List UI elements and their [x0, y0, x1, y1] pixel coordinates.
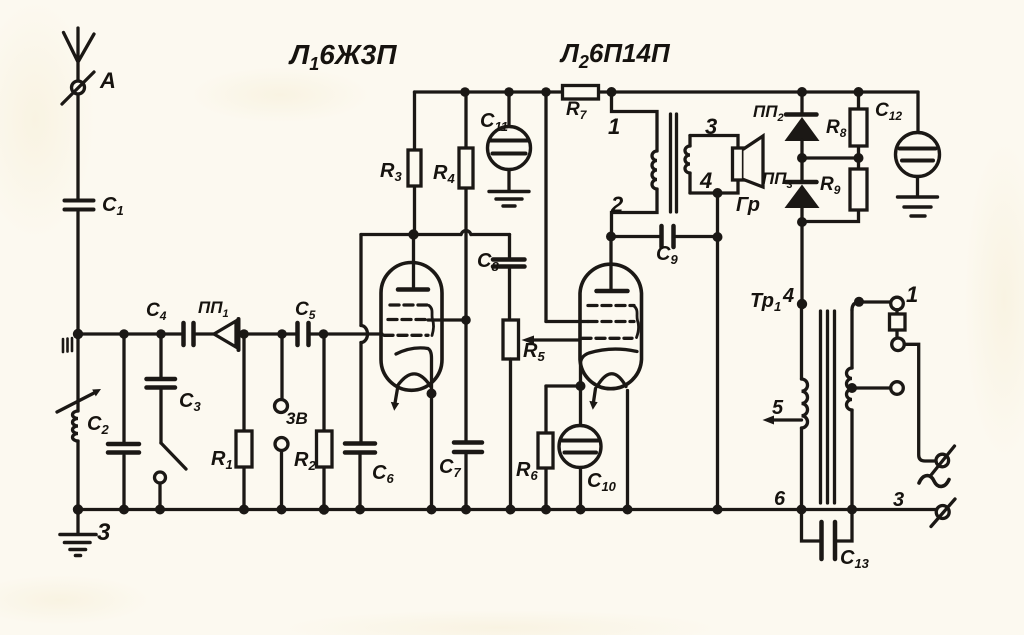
tube L1 envelope: [381, 263, 442, 391]
node battery branch top: [277, 329, 287, 339]
svg-text:4: 4: [699, 168, 712, 193]
resistor R7: [563, 86, 599, 100]
capacitor C9: [611, 226, 718, 247]
tube L2 envelope: [580, 264, 642, 389]
tube L2 heater lead arrow: [589, 389, 597, 410]
diode PP3: [785, 158, 820, 222]
wire fuse terminal to mains: [904, 344, 936, 461]
AC tilde marks: [919, 476, 949, 487]
electrolytic capacitor C11: [488, 92, 531, 191]
resistor R8: [850, 92, 867, 158]
resistor R6: [538, 386, 581, 510]
wire screen grid tube1: [428, 318, 466, 321]
terminal circle below fuse: [892, 338, 905, 351]
power transformer core: [821, 311, 835, 503]
node speaker return: [713, 188, 723, 198]
bottom bus junction dots: [73, 504, 83, 514]
node heater winding top: [854, 297, 864, 307]
battery terminal 3V lower: [275, 438, 288, 510]
output transformer core: [671, 114, 677, 212]
diode PP1: [214, 319, 239, 350]
tube L1 cathode: [396, 348, 432, 510]
svg-text:1: 1: [608, 114, 620, 139]
capacitor C6: [345, 444, 375, 510]
tube L2 cathode: [581, 349, 638, 425]
electrolytic capacitor C12: [896, 92, 940, 195]
svg-text:A: A: [99, 68, 116, 93]
node screen bus: [541, 87, 551, 97]
capacitor C8: [493, 235, 525, 321]
node cathode tube1: [427, 389, 437, 399]
wire diode junction to R8 R9: [802, 156, 859, 159]
ground symbol C12: [898, 197, 938, 216]
node C3 top: [156, 329, 166, 339]
svg-text:Л16Ж3П: Л16Ж3П: [288, 39, 397, 74]
tube L1 anode: [398, 235, 428, 290]
node anode coupling: [606, 232, 616, 242]
node B+ output transformer: [607, 87, 617, 97]
antenna connector terminal: [62, 72, 94, 104]
node anode R3 junction: [408, 229, 418, 239]
wire C1 to node: [76, 212, 79, 334]
switch blade: [161, 443, 186, 469]
node screen junction tube1: [461, 315, 471, 325]
node below PP3: [797, 217, 807, 227]
svg-text:5: 5: [772, 397, 784, 419]
wire capacitor to ground bus: [122, 456, 125, 510]
wire anode link horizontal: [361, 231, 510, 235]
node between diodes: [797, 153, 807, 163]
wire screen supply tube2: [546, 92, 588, 322]
mains connector lower: [931, 499, 955, 527]
node antenna bus junction: [73, 329, 83, 339]
resistor R1: [236, 334, 252, 510]
tube L1 grid dashes: [384, 305, 430, 335]
variable inductor C2 (coil with arrow): [57, 334, 101, 510]
tap 5 arrow: [763, 416, 802, 425]
terminal circle 1: [891, 297, 904, 310]
svg-text:3: 3: [893, 489, 904, 511]
svg-text:1: 1: [906, 282, 918, 307]
wire signal bus left segment: [78, 332, 181, 335]
ground symbol C11: [489, 192, 529, 207]
wire rectifier to transformer node 4: [800, 222, 803, 304]
capacitor C13: [802, 510, 853, 560]
svg-text:3: 3: [705, 114, 717, 139]
resistor R9: [802, 158, 867, 222]
node C11 bus: [504, 87, 514, 97]
resistor R3: [408, 92, 421, 235]
wire C4 to diode: [196, 332, 214, 335]
capacitor C1: [65, 201, 94, 210]
battery terminal 3V upper: [275, 334, 288, 413]
fuse: [890, 310, 906, 338]
capacitor C5: [298, 323, 309, 345]
center tap wire: [852, 386, 890, 389]
power transformer heater winding: [847, 302, 891, 510]
svg-text:4: 4: [782, 285, 794, 307]
capacitor C4: [184, 323, 194, 345]
node cathode tube2: [576, 381, 586, 391]
svg-text:3: 3: [97, 519, 111, 546]
ground symbol left: [60, 510, 96, 556]
tube L1 grid side curve: [429, 306, 434, 336]
capacitor C7: [454, 443, 482, 510]
resistor R2: [317, 334, 333, 510]
tube L1 heater: [397, 374, 431, 387]
wiper arrow R5: [522, 336, 581, 345]
tube L2 grid side curve: [634, 306, 639, 338]
output transformer secondary winding: [685, 136, 690, 194]
svg-text:Л26П14П: Л26П14П: [559, 38, 671, 72]
resistor R4: [459, 92, 473, 441]
svg-text:6: 6: [774, 488, 786, 510]
wire anode drop with hop: [361, 235, 368, 442]
potentiometer R5: [503, 320, 519, 510]
tube L1 heater lead arrow: [391, 389, 399, 411]
wire secondary top to speaker: [690, 136, 738, 149]
tube L2 grid dashes: [582, 306, 634, 339]
tube L2 anode: [597, 237, 628, 292]
padding capacitor (unlabeled): [108, 444, 139, 453]
node transformer Tr1 pin 4: [797, 299, 807, 309]
node R1 top: [239, 329, 249, 339]
output transformer primary winding: [612, 92, 658, 237]
node C9 right: [713, 232, 723, 242]
wire antenna to C1: [76, 94, 79, 199]
svg-text:2: 2: [610, 192, 624, 217]
node rectifier bus left: [797, 87, 807, 97]
antenna A: [64, 28, 95, 80]
switch contact circle: [155, 472, 166, 483]
node C5 grid junction: [319, 329, 329, 339]
mains connector upper: [932, 446, 955, 475]
wire secondary bottom to speaker: [690, 180, 738, 193]
wire switch to ground bus: [158, 483, 161, 510]
capacitor C3: [147, 334, 176, 443]
wire bus to padding capacitor: [122, 334, 125, 442]
wire C5 to tube grid: [310, 332, 382, 335]
terminal circle center tap: [891, 382, 904, 395]
node R8 bottom: [854, 153, 864, 163]
electrolytic capacitor C10: [559, 426, 601, 510]
ground-coupling mark III: [63, 338, 72, 352]
svg-text:3B: 3B: [286, 409, 308, 428]
tube L2 heater: [597, 374, 626, 387]
top supply bus: [415, 90, 919, 93]
bottom ground bus: [78, 508, 936, 511]
svg-text:Гр: Гр: [736, 194, 760, 216]
node R8 bus: [854, 87, 864, 97]
diode PP2: [785, 92, 820, 158]
node R4 bus: [460, 87, 470, 97]
loudspeaker Gr: [733, 136, 764, 187]
node: [119, 329, 129, 339]
node center tap: [847, 383, 857, 393]
tube L2 heater return wire: [626, 391, 629, 510]
wire diode to C5: [239, 332, 296, 335]
power transformer Tr1 primary winding: [802, 304, 808, 510]
wire speaker return drop: [716, 193, 719, 510]
